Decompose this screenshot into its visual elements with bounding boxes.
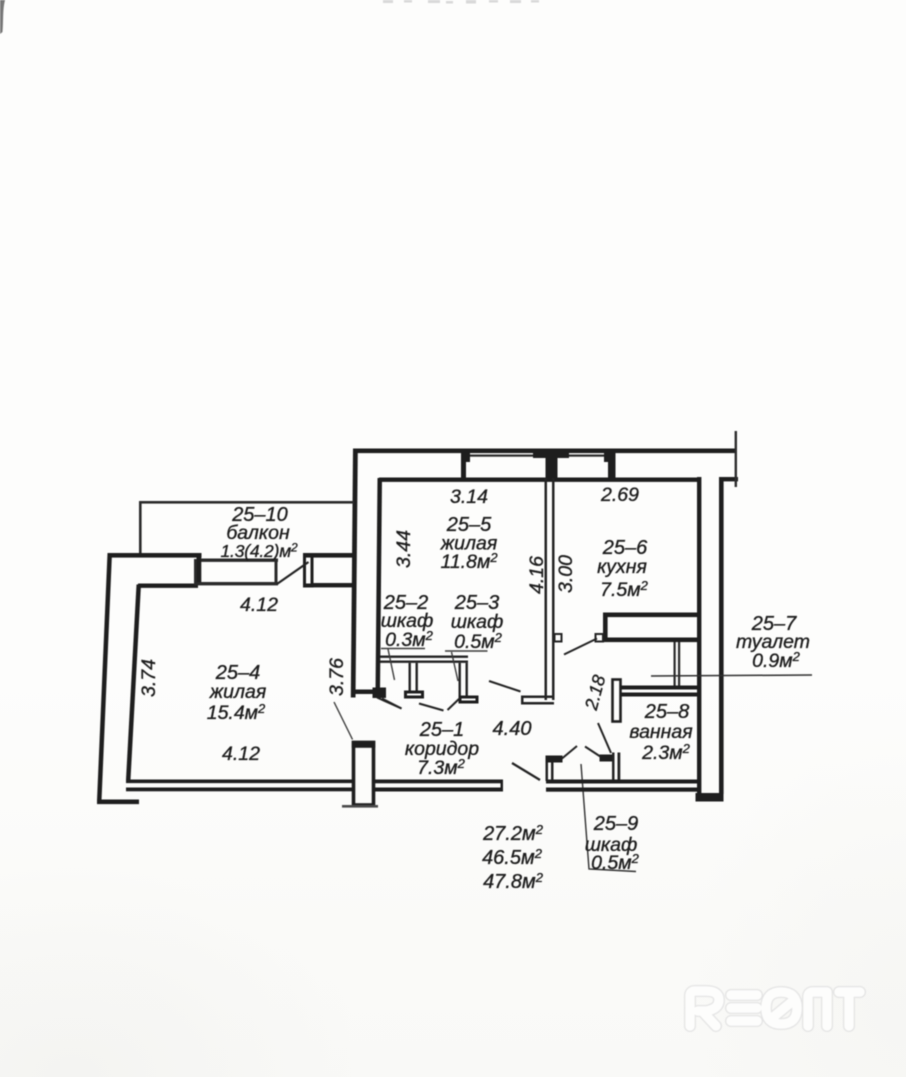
closet 25-9 left cap <box>546 756 563 763</box>
room 25-5 door leaf <box>489 681 521 692</box>
wall between 25-5 and kitchen/hall (double thin) <box>521 478 555 705</box>
svg-text:кухня: кухня <box>597 556 647 578</box>
svg-text:3.00: 3.00 <box>555 555 577 593</box>
door leaf room 25-4 <box>377 698 402 709</box>
window pier C (right jamb) <box>604 449 616 479</box>
closet 25-9 door leaf right <box>585 747 601 758</box>
svg-text:0.3м2: 0.3м2 <box>385 628 433 651</box>
svg-text:0.5м2: 0.5м2 <box>454 630 502 653</box>
svg-text:25–8: 25–8 <box>644 701 690 723</box>
leader line closet 25-3 <box>445 651 488 681</box>
toilet 25-7 left wall double line <box>674 642 681 689</box>
bottom wall right section double line <box>546 780 698 784</box>
svg-text:27.2м2: 27.2м2 <box>482 822 544 845</box>
svg-text:1.3(4.2)м2: 1.3(4.2)м2 <box>221 541 299 562</box>
closet 25-9 door leaf left <box>562 746 577 759</box>
pier between 25-4 and corridor <box>354 743 374 806</box>
room 25-4 left wall foot <box>97 800 139 805</box>
closet door leaf left <box>382 699 402 709</box>
room 25-4 top wall outer line <box>108 553 202 558</box>
balcony door jamb right <box>303 553 314 588</box>
hinge plate on wall (kitchen door) <box>555 634 562 642</box>
kitchen door hinge plate <box>596 634 604 642</box>
window pier B (T pier) <box>533 449 569 479</box>
closet divider 1 <box>409 663 411 691</box>
svg-text:4.12: 4.12 <box>222 743 260 765</box>
main right wall exterior tick <box>735 431 737 487</box>
svg-text:2.69: 2.69 <box>600 484 639 506</box>
balcony door open leaf <box>277 562 309 584</box>
pier top cap <box>352 741 375 748</box>
window glass line left (room 25-5 window) <box>470 455 534 457</box>
bathroom door leaf <box>598 723 611 753</box>
bathroom 25-8 top wall double line <box>620 686 697 697</box>
svg-text:4.12: 4.12 <box>240 594 278 616</box>
main right wall top tie <box>719 477 738 481</box>
entrance door leaf <box>512 763 540 780</box>
top wall inner segment right of balcony door <box>313 583 354 587</box>
svg-text:4.40: 4.40 <box>493 718 532 740</box>
top wall outer segment right of balcony door <box>303 553 354 558</box>
balcony window inner sill <box>194 582 278 585</box>
wall junction black cap at corridor door <box>373 688 387 699</box>
svg-text:47.8м2: 47.8м2 <box>483 870 544 893</box>
wall 25-4/25-5 inner line <box>376 478 383 692</box>
svg-text:3.44: 3.44 <box>393 530 415 568</box>
wall 25-4/25-5 outer line <box>351 449 358 698</box>
svg-text:0.5м2: 0.5м2 <box>591 851 639 874</box>
corner return to corridor <box>521 696 554 699</box>
main right wall outer line <box>719 477 724 794</box>
balcony window outer sill <box>201 559 278 562</box>
bottom wall corridor double line <box>375 780 503 784</box>
closet door leaf middle <box>419 704 444 711</box>
leader line closet 25-2 <box>381 649 425 681</box>
leader 3.76 to pier <box>334 702 353 740</box>
svg-text:3.14: 3.14 <box>450 486 488 508</box>
svg-text:0.9м2: 0.9м2 <box>752 649 800 672</box>
balcony window mid divider <box>275 559 278 585</box>
window glass line right (kitchen window) <box>569 455 604 457</box>
svg-text:11.8м2: 11.8м2 <box>440 550 498 573</box>
kitchen bottom wall <box>603 613 699 643</box>
room 25-4 left wall inner line <box>126 585 141 780</box>
closet door leaf right <box>448 698 461 710</box>
main right wall bottom cap <box>696 793 724 802</box>
closet divider 1 foot <box>404 691 424 699</box>
svg-text:7.5м2: 7.5м2 <box>600 578 648 601</box>
closet divider 2 foot <box>459 696 479 704</box>
kitchen door leaf <box>564 639 597 655</box>
balcony 25-10 outline <box>139 501 354 554</box>
closet 25-9 left wall <box>546 756 554 781</box>
closet 25-9 right cap <box>600 755 613 762</box>
wall 25-4/25-5 bottom cap <box>351 690 376 695</box>
pier foot line <box>342 805 378 808</box>
top exterior wall outer line <box>353 449 737 454</box>
closet back wall (25-2/25-3) double line <box>380 656 468 698</box>
faint cut-off text top edge <box>383 0 539 4</box>
toilet leader line <box>651 675 812 676</box>
room 25-4 top wall step at window <box>197 553 202 584</box>
svg-text:ванная: ванная <box>629 721 693 743</box>
svg-text:15.4м2: 15.4м2 <box>207 701 266 724</box>
closet 25-9 right post <box>612 753 620 781</box>
main right wall inner line <box>697 477 701 795</box>
svg-text:2.3м2: 2.3м2 <box>641 741 690 764</box>
inner top wall line (rooms 25-5 and 25-6) <box>379 478 698 482</box>
watermark Realt <box>690 991 860 1026</box>
window pier A (left jamb) <box>461 449 470 479</box>
svg-text:жилая: жилая <box>209 681 267 703</box>
svg-text:3.76: 3.76 <box>326 658 348 696</box>
svg-text:46.5м2: 46.5м2 <box>482 846 543 869</box>
svg-text:7.3м2: 7.3м2 <box>417 756 465 779</box>
svg-text:25–9: 25–9 <box>593 813 639 835</box>
room 25-4 left wall outer line <box>97 553 112 801</box>
svg-text:2.18: 2.18 <box>581 673 610 713</box>
svg-text:4.16: 4.16 <box>526 556 548 594</box>
bathroom door post <box>613 680 621 722</box>
closet divider 2 <box>459 663 461 697</box>
scan smudge top-left <box>0 0 5 34</box>
svg-text:3.74: 3.74 <box>138 659 160 697</box>
closet 25-9 leader line <box>581 764 636 872</box>
bottom wall room 25-4 double line <box>126 780 698 792</box>
room 25-4 top wall inner line <box>138 584 198 588</box>
balcony window left close <box>194 559 197 585</box>
